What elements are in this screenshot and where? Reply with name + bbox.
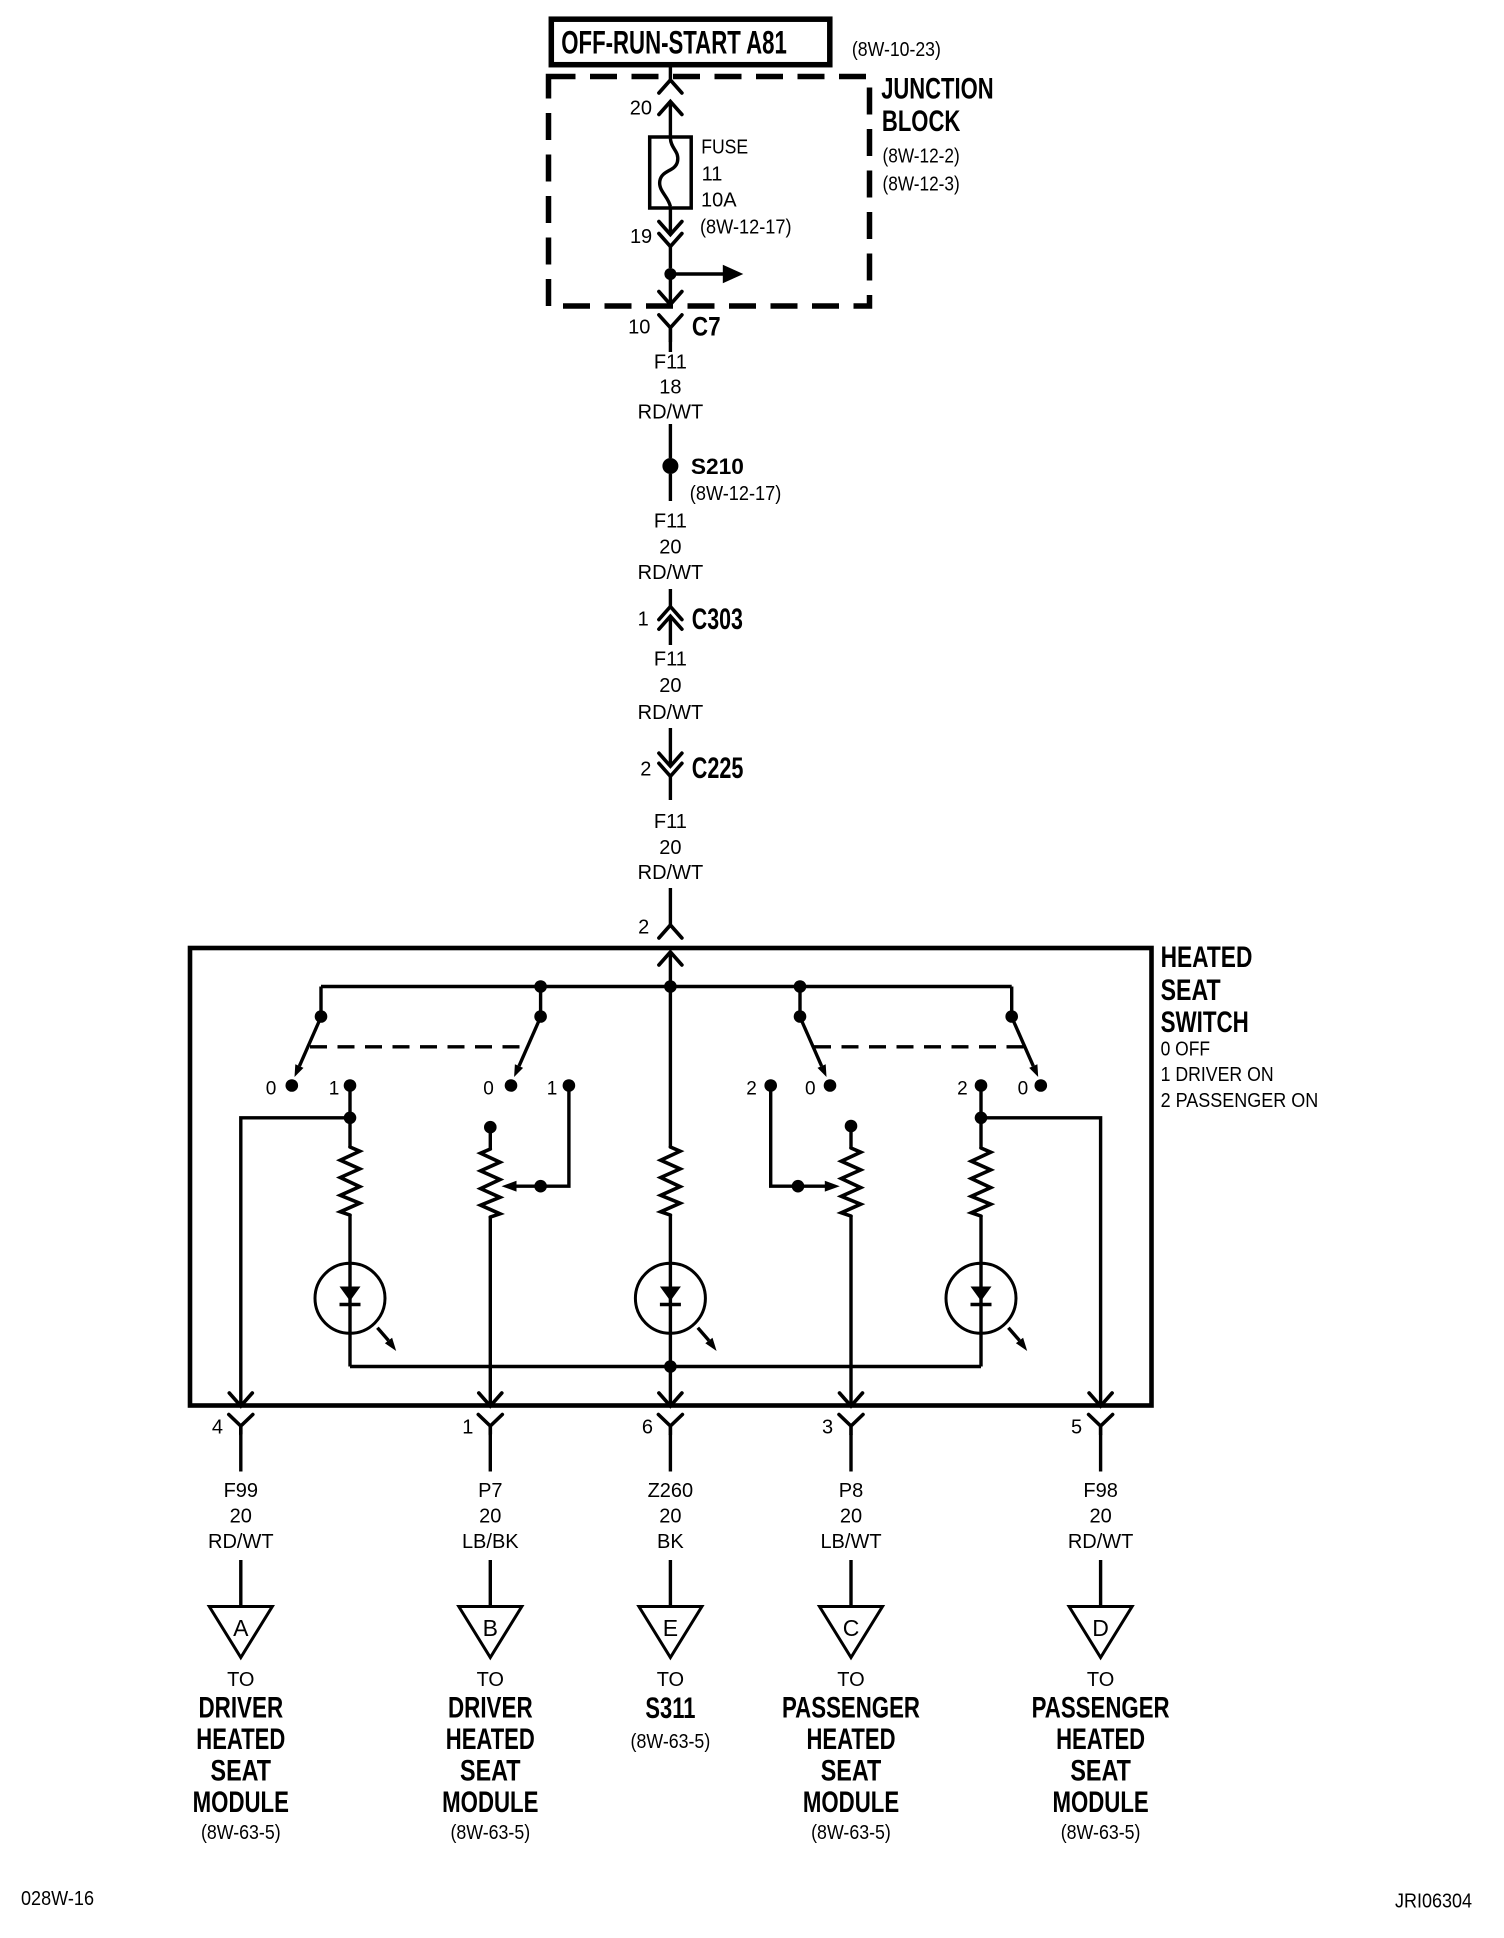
svg-text:F11: F11	[654, 811, 687, 833]
svg-text:20: 20	[230, 1506, 252, 1528]
off-page connector D	[1069, 1607, 1132, 1658]
feed wire into box	[669, 952, 672, 1147]
node bus/S2	[534, 980, 547, 993]
wiper wire from contact S2-1	[502, 1086, 569, 1193]
svg-text:SEAT: SEAT	[821, 1754, 882, 1787]
wire F11 20 RD/WT	[638, 648, 704, 766]
svg-text:0: 0	[805, 1079, 816, 1100]
off-page connector B	[459, 1607, 522, 1658]
svg-text:20: 20	[840, 1506, 862, 1528]
junction block dashed box	[549, 77, 870, 307]
svg-text:F99: F99	[224, 1480, 258, 1502]
destination label D	[1032, 1669, 1170, 1844]
svg-text:C225: C225	[692, 752, 744, 785]
svg-text:B: B	[483, 1615, 498, 1641]
svg-text:(8W-12-17): (8W-12-17)	[690, 483, 782, 505]
svg-text:RD/WT: RD/WT	[638, 402, 704, 424]
svg-text:SEAT: SEAT	[211, 1754, 272, 1787]
svg-text:SEAT: SEAT	[1070, 1754, 1131, 1787]
svg-text:20: 20	[659, 1506, 681, 1528]
wiper wire from contact S3-2	[771, 1086, 840, 1193]
svg-text:PASSENGER: PASSENGER	[1032, 1691, 1170, 1724]
svg-text:SEAT: SEAT	[1161, 974, 1221, 1007]
junction block label	[881, 73, 993, 196]
svg-text:20: 20	[630, 98, 652, 120]
svg-text:2 PASSENGER ON: 2 PASSENGER ON	[1161, 1090, 1319, 1112]
rheostat R2 top terminal	[484, 1121, 497, 1149]
resistor R4 (passenger temp rheostat)	[841, 1148, 860, 1216]
switch S3 blade	[800, 1017, 827, 1077]
svg-text:TO: TO	[477, 1669, 504, 1691]
wire contact S1-1 down to resistor R1	[348, 1086, 351, 1148]
connector pin 3	[822, 1393, 863, 1438]
svg-text:E: E	[663, 1615, 678, 1641]
switch S2 blade	[514, 1017, 541, 1077]
LED D2	[635, 1263, 716, 1351]
wire from title box into junction block	[669, 67, 672, 80]
wire branch to pin 4	[241, 1118, 350, 1406]
wire F11 20 RD/WT	[638, 474, 704, 607]
svg-text:1: 1	[329, 1079, 340, 1100]
svg-text:RD/WT: RD/WT	[638, 862, 704, 884]
svg-text:20: 20	[479, 1506, 501, 1528]
svg-text:HEATED: HEATED	[196, 1723, 285, 1756]
off-page connector C	[820, 1607, 883, 1658]
svg-text:2: 2	[638, 917, 649, 939]
svg-text:10A: 10A	[701, 189, 737, 211]
switch S1 pivot	[315, 1010, 328, 1023]
wire F98 20 RD/WT	[1068, 1434, 1134, 1607]
contact S2-0	[505, 1079, 518, 1092]
svg-text:MODULE: MODULE	[442, 1786, 538, 1819]
svg-text:(8W-12-2): (8W-12-2)	[883, 146, 960, 168]
svg-text:0: 0	[266, 1079, 277, 1100]
switch S4 blade	[1012, 1017, 1038, 1077]
splice S210	[662, 454, 781, 505]
svg-text:HEATED: HEATED	[446, 1723, 535, 1756]
resistor R2 (driver temp rheostat)	[481, 1149, 500, 1217]
svg-text:RD/WT: RD/WT	[638, 702, 704, 724]
wire bus to switch S1 pivot	[319, 987, 322, 1017]
svg-text:LB/WT: LB/WT	[820, 1531, 881, 1553]
wire R3 to LED D2	[669, 1215, 672, 1406]
svg-text:OFF-RUN-START A81: OFF-RUN-START A81	[561, 25, 787, 61]
svg-text:TO: TO	[837, 1669, 864, 1691]
svg-text:PASSENGER: PASSENGER	[782, 1691, 920, 1724]
svg-text:RD/WT: RD/WT	[1068, 1531, 1134, 1553]
svg-text:(8W-12-3): (8W-12-3)	[883, 174, 960, 196]
node R5 top / pin5 branch	[975, 1112, 988, 1125]
svg-text:10: 10	[628, 317, 650, 339]
switch S2 pivot	[534, 1010, 547, 1023]
svg-text:P7: P7	[478, 1480, 502, 1502]
wire F11 20 RD/WT	[638, 811, 704, 925]
switch S3 pivot	[794, 1010, 807, 1023]
svg-text:BLOCK: BLOCK	[882, 105, 961, 138]
off-page connector E	[639, 1607, 702, 1658]
svg-text:P8: P8	[839, 1480, 863, 1502]
svg-text:HEATED: HEATED	[1056, 1723, 1145, 1756]
contact S3-0	[824, 1079, 837, 1092]
destination label B	[442, 1669, 538, 1844]
connector pin 4	[212, 1393, 253, 1438]
svg-text:4: 4	[212, 1416, 223, 1438]
supply bus	[321, 985, 1012, 988]
svg-text:C: C	[843, 1615, 860, 1641]
wire node to C7	[669, 274, 672, 305]
svg-text:TO: TO	[1087, 1669, 1114, 1691]
wire R4 to pin 3	[849, 1216, 852, 1406]
resistor R5	[971, 1148, 990, 1216]
svg-text:TO: TO	[657, 1669, 684, 1691]
svg-text:Z260: Z260	[648, 1480, 694, 1502]
svg-text:RD/WT: RD/WT	[638, 562, 704, 584]
svg-text:20: 20	[659, 537, 681, 559]
svg-text:2: 2	[746, 1079, 757, 1100]
mechanical link S1-S2 dashed	[310, 1045, 525, 1048]
wire branch to pin 5	[981, 1118, 1101, 1406]
svg-text:F11: F11	[654, 648, 687, 670]
fuse 11 10A	[650, 137, 692, 208]
rheostat R4 top terminal	[845, 1120, 858, 1148]
svg-text:0: 0	[483, 1079, 494, 1100]
svg-text:F98: F98	[1083, 1480, 1117, 1502]
svg-text:MODULE: MODULE	[1052, 1786, 1148, 1819]
svg-text:(8W-63-5): (8W-63-5)	[450, 1822, 530, 1844]
wire bus to switch S3 pivot	[798, 987, 801, 1017]
wire R2 to pin 1	[489, 1217, 492, 1406]
title box OFF-RUN-START A81	[551, 19, 830, 64]
svg-text:MODULE: MODULE	[193, 1786, 289, 1819]
wire contact S4-2 down to resistor R5	[979, 1086, 982, 1149]
connector C303 pin 1	[638, 603, 743, 645]
switch S4 pivot	[1005, 1010, 1018, 1023]
svg-text:DRIVER: DRIVER	[198, 1691, 283, 1724]
svg-text:S210: S210	[691, 454, 744, 479]
svg-text:SWITCH: SWITCH	[1161, 1006, 1249, 1039]
svg-text:BK: BK	[657, 1531, 684, 1553]
connector pin 6	[642, 1393, 683, 1438]
wire bus to switch S2 pivot	[539, 987, 542, 1017]
svg-text:19: 19	[630, 226, 652, 248]
wire F11 18 RD/WT	[638, 341, 704, 458]
off-page connector A	[209, 1607, 272, 1658]
svg-text:5: 5	[1071, 1416, 1082, 1438]
svg-text:RD/WT: RD/WT	[208, 1531, 274, 1553]
svg-text:0 OFF: 0 OFF	[1161, 1038, 1210, 1060]
svg-text:C7: C7	[692, 312, 721, 342]
contact S1-1	[344, 1079, 357, 1092]
heated seat switch label	[1161, 941, 1253, 1039]
resistor R1	[340, 1147, 359, 1215]
resistor R3	[661, 1147, 680, 1215]
svg-text:FUSE: FUSE	[701, 137, 748, 159]
mechanical link S3-S4 dashed	[814, 1045, 1024, 1048]
destination label E	[631, 1669, 711, 1753]
LED D3	[946, 1263, 1027, 1351]
svg-text:S311: S311	[645, 1692, 695, 1725]
LED D1	[315, 1263, 396, 1351]
wire P7 20 LB/BK	[462, 1434, 519, 1607]
switch position legend	[1161, 1038, 1319, 1112]
svg-text:6: 6	[642, 1416, 653, 1438]
svg-text:(8W-63-5): (8W-63-5)	[1061, 1822, 1141, 1844]
fuse value label	[700, 137, 792, 239]
connector heated seat switch pin 2	[638, 917, 682, 965]
svg-text:1: 1	[638, 609, 649, 631]
svg-text:0: 0	[1018, 1079, 1029, 1100]
wire R1 to LED D1	[348, 1215, 351, 1366]
svg-text:(8W-63-5): (8W-63-5)	[201, 1822, 281, 1844]
svg-text:18: 18	[659, 377, 681, 399]
connector C7 pin 10	[628, 292, 720, 342]
svg-text:1 DRIVER ON: 1 DRIVER ON	[1161, 1064, 1274, 1086]
contact S3-2	[764, 1079, 777, 1092]
wire fuse to pin 19	[669, 207, 672, 235]
svg-text:(8W-63-5): (8W-63-5)	[811, 1822, 891, 1844]
svg-text:20: 20	[659, 675, 681, 697]
connector C225 pin 2	[640, 752, 743, 800]
node bus/S3	[794, 980, 807, 993]
svg-text:D: D	[1092, 1615, 1109, 1641]
svg-text:C303: C303	[692, 603, 743, 636]
svg-text:F11: F11	[654, 511, 687, 533]
connector pin 1	[462, 1393, 502, 1438]
node return bus / pin 6	[664, 1360, 677, 1373]
connector pin 19	[630, 222, 682, 269]
svg-text:A: A	[233, 1615, 249, 1641]
svg-text:TO: TO	[227, 1669, 254, 1691]
contact S1-0	[286, 1079, 299, 1092]
node bus/feed	[664, 980, 677, 993]
svg-text:F11: F11	[654, 352, 687, 374]
junction node with feed arrow	[664, 265, 743, 284]
node R1 top / pin4 branch	[344, 1112, 357, 1125]
wire F99 20 RD/WT	[208, 1434, 274, 1607]
svg-text:LB/BK: LB/BK	[462, 1531, 519, 1553]
wire Z260 20 BK	[648, 1434, 694, 1607]
wire R5 to LED D3	[979, 1216, 982, 1366]
svg-text:(8W-12-17): (8W-12-17)	[700, 217, 792, 239]
contact S4-0	[1035, 1079, 1048, 1092]
svg-text:20: 20	[1089, 1506, 1111, 1528]
LED return bus	[350, 1365, 981, 1368]
svg-text:2: 2	[640, 759, 651, 781]
contact S2-1	[563, 1079, 576, 1092]
svg-text:(8W-63-5): (8W-63-5)	[631, 1731, 711, 1753]
svg-text:MODULE: MODULE	[803, 1786, 899, 1819]
heated seat switch box	[190, 948, 1152, 1406]
wire P8 20 LB/WT	[820, 1434, 881, 1607]
svg-text:11: 11	[702, 163, 723, 185]
svg-text:1: 1	[547, 1079, 558, 1100]
svg-text:DRIVER: DRIVER	[448, 1691, 533, 1724]
svg-text:JRI06304: JRI06304	[1395, 1891, 1472, 1913]
svg-text:JUNCTION: JUNCTION	[881, 73, 993, 106]
destination label A	[193, 1669, 289, 1844]
svg-text:028W-16: 028W-16	[21, 1888, 94, 1910]
connector pin 20	[630, 80, 682, 139]
svg-text:2: 2	[957, 1079, 968, 1100]
svg-text:HEATED: HEATED	[1161, 941, 1253, 974]
svg-text:HEATED: HEATED	[807, 1723, 896, 1756]
destination label C	[782, 1669, 920, 1844]
svg-text:3: 3	[822, 1416, 833, 1438]
switch S1 blade	[295, 1017, 322, 1077]
svg-text:(8W-10-23): (8W-10-23)	[852, 39, 941, 61]
wire bus to switch S4 pivot	[1010, 987, 1013, 1017]
contact S4-2	[975, 1079, 988, 1092]
svg-text:20: 20	[659, 837, 681, 859]
svg-text:SEAT: SEAT	[460, 1754, 521, 1787]
svg-text:1: 1	[462, 1416, 473, 1438]
connector pin 5	[1071, 1393, 1113, 1438]
